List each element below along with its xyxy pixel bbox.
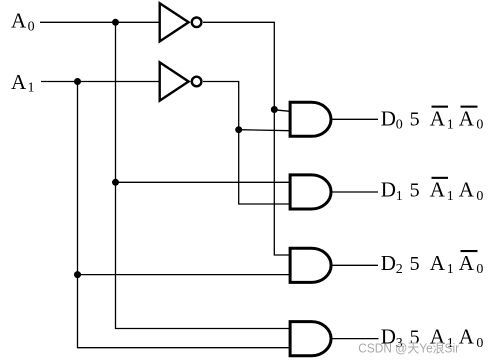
svg-text:0: 0 bbox=[476, 118, 483, 133]
wire G2 output bbox=[333, 191, 379, 193]
svg-text:0: 0 bbox=[28, 20, 35, 35]
junction on A1 lead bbox=[74, 78, 81, 85]
svg-text:A: A bbox=[459, 106, 475, 130]
svg-text:1: 1 bbox=[28, 81, 35, 96]
wire inverter U2 output to vertical NOT-A1 trunk bbox=[203, 82, 290, 205]
label D0 equation bbox=[381, 106, 484, 133]
svg-text:A: A bbox=[459, 325, 475, 349]
svg-text:1: 1 bbox=[447, 118, 454, 133]
svg-text:A: A bbox=[430, 251, 446, 275]
wire A0 vertical trunk to gate D3 top input bbox=[116, 22, 291, 328]
svg-text:1: 1 bbox=[447, 189, 454, 204]
wire NOT-A1 branch to gate D0 bottom input bbox=[239, 130, 290, 131]
svg-text:0: 0 bbox=[396, 118, 403, 133]
svg-text:5: 5 bbox=[410, 180, 420, 202]
junction on A1 trunk bbox=[74, 271, 81, 278]
svg-text:1: 1 bbox=[396, 189, 403, 204]
AND gate G3 (D2) bbox=[290, 248, 331, 282]
label D2 equation bbox=[381, 250, 484, 277]
junction on A0 trunk bbox=[112, 179, 119, 186]
label D1 equation bbox=[381, 177, 484, 204]
junction on A0 lead bbox=[112, 19, 119, 26]
svg-text:0: 0 bbox=[476, 262, 483, 277]
svg-text:5: 5 bbox=[410, 108, 420, 130]
svg-text:A: A bbox=[430, 178, 446, 202]
svg-text:A: A bbox=[11, 9, 27, 33]
label D3 equation bbox=[381, 325, 484, 351]
wire G3 output bbox=[333, 264, 379, 266]
wire A0 branch to gate D1 top input bbox=[116, 181, 291, 183]
inverter U2 (A1) bbox=[160, 62, 202, 100]
wire G4 output bbox=[333, 338, 379, 340]
svg-text:CSDN @天Ye浪Sir: CSDN @天Ye浪Sir bbox=[358, 340, 459, 355]
wire A1 vertical trunk to gate D3 bottom input bbox=[78, 82, 291, 348]
junction on NOT-A1 trunk bbox=[235, 126, 242, 133]
svg-text:1: 1 bbox=[447, 262, 454, 277]
svg-text:A: A bbox=[459, 178, 475, 202]
wire G1 output bbox=[333, 118, 379, 120]
svg-text:A: A bbox=[11, 70, 27, 94]
svg-text:5: 5 bbox=[410, 253, 420, 275]
svg-text:A: A bbox=[430, 106, 446, 130]
wire NOT-A0 branch to gate D0 top input bbox=[274, 110, 290, 112]
svg-text:0: 0 bbox=[476, 336, 483, 351]
node A0 input label bbox=[11, 9, 35, 35]
AND gate G1 (D0) bbox=[290, 102, 331, 136]
AND gate G4 (D3) bbox=[290, 322, 331, 356]
svg-text:D: D bbox=[381, 106, 396, 130]
node A1 input label bbox=[11, 70, 35, 96]
svg-text:D: D bbox=[381, 178, 396, 202]
svg-text:A: A bbox=[459, 251, 475, 275]
inverter U1 (A0) bbox=[160, 3, 202, 41]
wire A0 lead-in bbox=[40, 21, 159, 23]
svg-text:D: D bbox=[381, 251, 396, 275]
wire A1 branch to gate D2 bottom input bbox=[78, 274, 291, 276]
svg-text:0: 0 bbox=[476, 189, 483, 204]
wire inverter U1 output to vertical NOT-A0 trunk bbox=[203, 22, 290, 255]
junction on NOT-A0 trunk bbox=[271, 106, 278, 113]
AND gate G2 (D1) bbox=[290, 175, 331, 209]
svg-text:2: 2 bbox=[396, 262, 403, 277]
wire A1 lead-in bbox=[41, 81, 159, 83]
